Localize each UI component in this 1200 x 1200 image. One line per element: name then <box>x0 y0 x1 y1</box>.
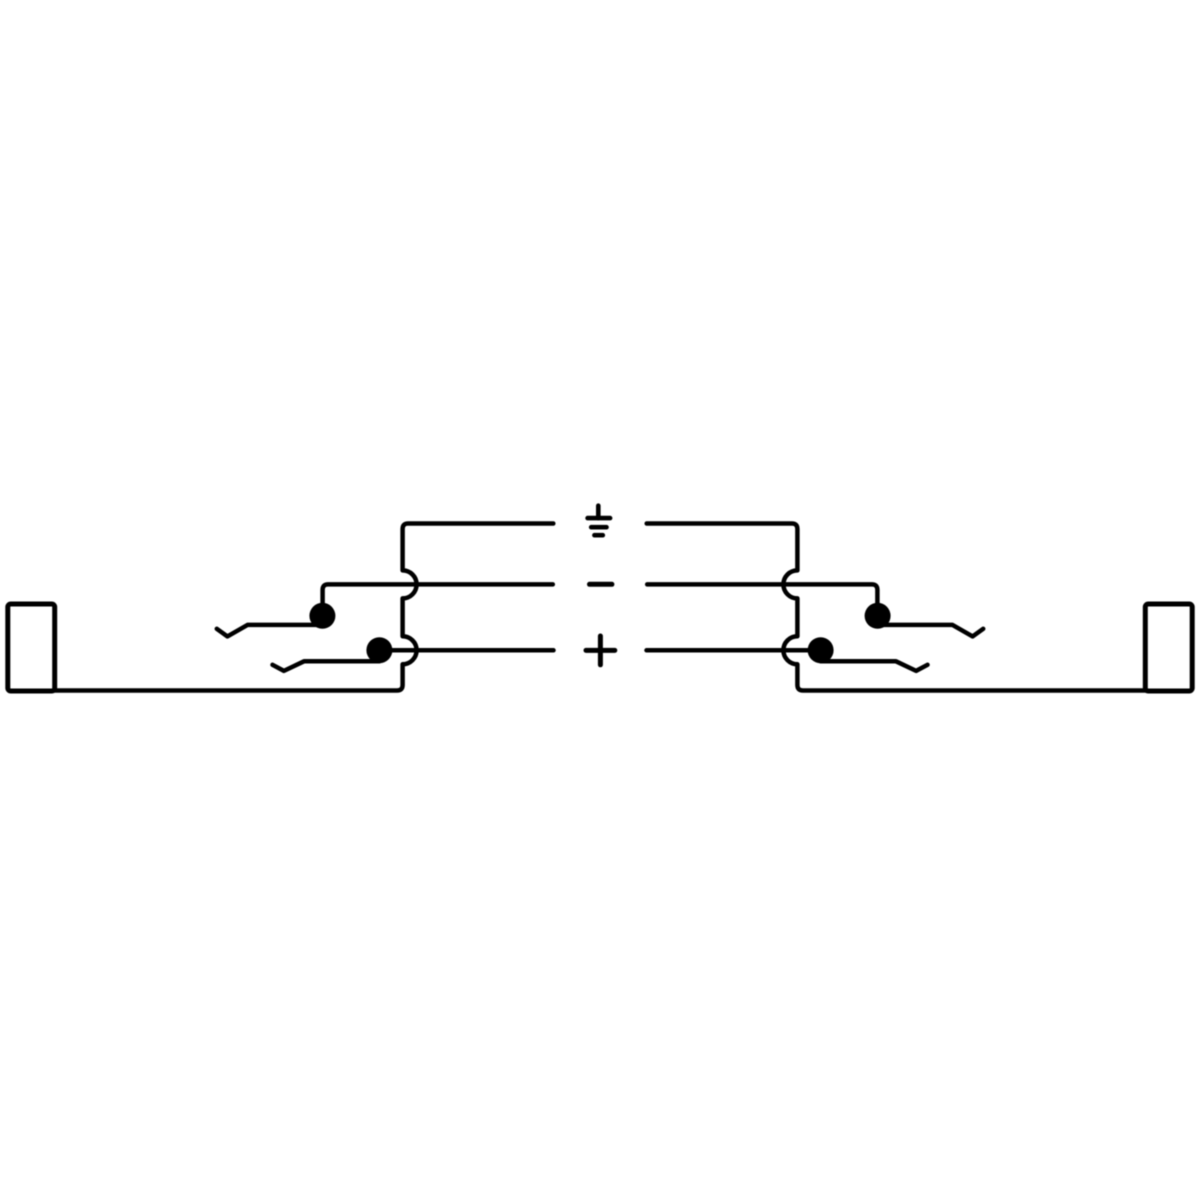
wire: left pigtail squiggle from (-) joint <box>217 625 323 637</box>
junction: right solder joint on (+) <box>808 637 834 663</box>
wire: right pigtail squiggle from (-) joint <box>878 625 984 637</box>
wire: right signal high (+) <box>647 648 821 653</box>
node + (signal high label) <box>586 636 615 665</box>
wire: left signal low (-) with corner drop to solder joint <box>323 584 553 615</box>
wire: left pigtail squiggle from (+) joint <box>273 661 380 671</box>
node - (signal low label) <box>590 582 612 587</box>
wire: left signal high (+) <box>379 648 553 653</box>
junction: left solder joint on (-) <box>309 603 335 629</box>
connector shell J1 (left device) <box>8 604 55 691</box>
wire: right shield run (top ground wire, shield bus with two hops, bottom wire) <box>647 524 1146 691</box>
junction: left solder joint on (+) <box>366 637 392 663</box>
junction: right solder joint on (-) <box>865 603 891 629</box>
wire: right signal low (-) with corner drop to solder joint <box>647 584 877 615</box>
wire: right pigtail squiggle from (+) joint <box>821 661 928 671</box>
connector shell J2 (right device) <box>1145 604 1192 691</box>
wire: left shield run (bottom wire, shield bus with two hops, top ground wire) <box>54 524 553 691</box>
ground symbol (chassis ground, center top) <box>588 506 611 536</box>
